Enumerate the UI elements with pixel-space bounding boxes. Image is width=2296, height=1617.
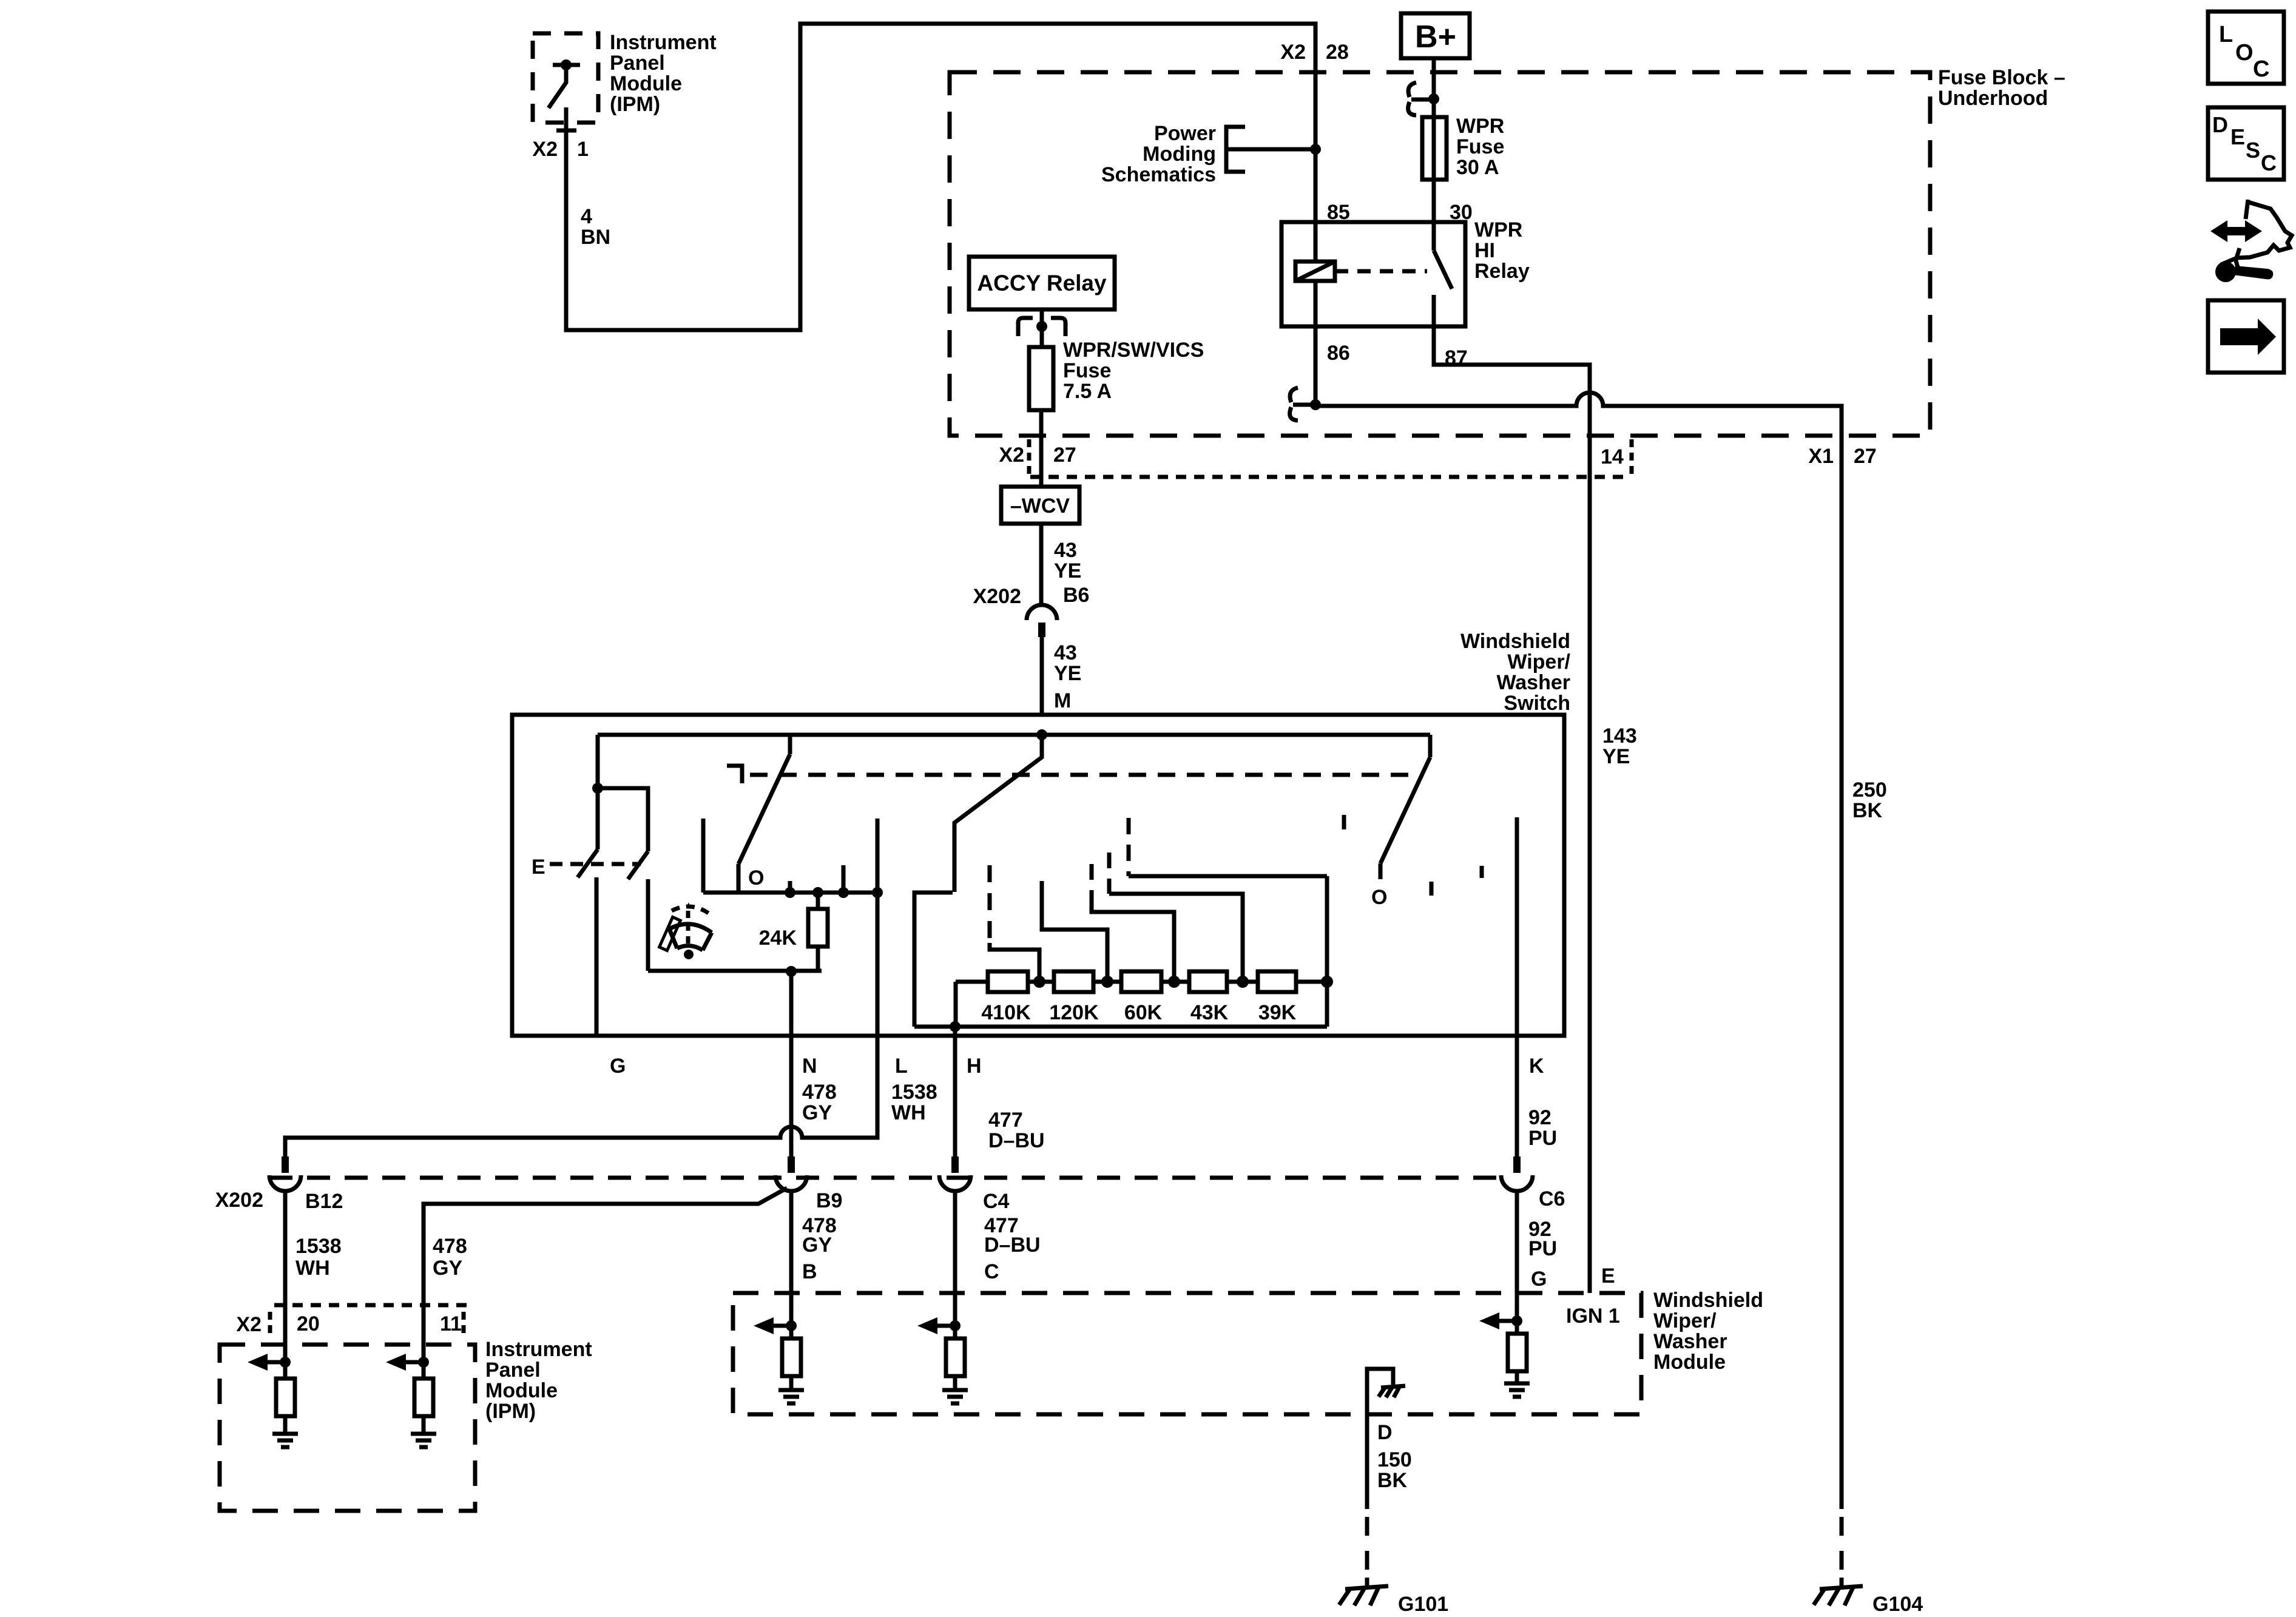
svg-text:Underhood: Underhood (1938, 87, 2048, 110)
svg-text:YE: YE (1602, 745, 1630, 768)
label Windshield Wiper/Washer Switch (1460, 630, 1571, 715)
wire B6 to switch pin M (1040, 637, 1044, 715)
relay WPR HI box (1281, 222, 1465, 326)
strip separator left of X2-27 (1027, 439, 1032, 479)
relay coil dashed link (1335, 269, 1427, 274)
wire label 43 YE M (1054, 641, 1081, 712)
svg-text:Panel: Panel (610, 52, 665, 75)
relay coil feed wire 85 (1314, 222, 1318, 262)
clip pair at ACCY feed (1018, 318, 1065, 336)
svg-text:Moding: Moding (1143, 143, 1216, 166)
icon box DESC (2208, 107, 2284, 180)
svg-text:Washer: Washer (1496, 671, 1570, 694)
svg-text:HI: HI (1474, 239, 1495, 262)
fuse WPR/SW/VICS 7.5 A (1029, 347, 1053, 410)
svg-text:G104: G104 (1872, 1593, 1923, 1616)
ladder series wire (956, 980, 1327, 984)
connector labels X202 B12 (215, 1189, 343, 1213)
connector pin C6 (1501, 1156, 1533, 1191)
svg-text:YE: YE (1054, 662, 1081, 685)
rail stub tall (842, 865, 846, 893)
H output wire inside box (953, 1027, 957, 1156)
junction at B+ feed (1428, 93, 1439, 104)
svg-text:D: D (1377, 1421, 1393, 1444)
windshield wiper/washer switch box (512, 715, 1564, 1036)
linkage dashed line (750, 773, 1418, 777)
fuse WPR 30 A (1422, 117, 1447, 180)
mist switch dashed link (550, 862, 641, 866)
svg-text:14: 14 (1601, 445, 1624, 468)
svg-text:1538: 1538 (295, 1235, 342, 1258)
label WPR Fuse 30 A (1456, 115, 1504, 179)
K contact wire (1515, 817, 1519, 1156)
clip symbol at B+ feed (1408, 83, 1434, 115)
svg-text:Power: Power (1154, 122, 1216, 145)
module box: Instrument Panel Module (IPM) upper-left (533, 33, 598, 123)
module input arrow pin C (917, 1317, 961, 1334)
svg-text:GY: GY (802, 1234, 832, 1257)
pin tick at IPM X2-1 (556, 129, 576, 133)
svg-text:X2: X2 (236, 1313, 262, 1336)
svg-text:478: 478 (802, 1081, 837, 1104)
svg-text:X2: X2 (532, 138, 558, 161)
svg-text:7.5 A: 7.5 A (1063, 380, 1112, 403)
G contact wire (595, 877, 599, 1036)
svg-text:X1: X1 (1808, 445, 1834, 468)
icon box LOC (2208, 12, 2284, 84)
off contact dash 3 (1480, 866, 1484, 878)
tap A dashed stub (988, 865, 992, 943)
connector pin B12 (269, 1156, 301, 1191)
fuse block underhood dashed box (950, 72, 1930, 436)
IPM input arrow pin 11 (386, 1354, 429, 1371)
svg-text:C: C (2261, 150, 2277, 175)
svg-text:GY: GY (802, 1101, 832, 1124)
svg-text:30 A: 30 A (1456, 156, 1499, 179)
N output wire inside box (789, 971, 794, 1036)
rail junction dots (785, 887, 883, 898)
clip symbol at relay 86 (1290, 388, 1315, 420)
wire label 92 PU (K) (1528, 1106, 1557, 1150)
module chassis ground pigtail D (1367, 1369, 1393, 1414)
svg-text:BK: BK (1852, 799, 1883, 822)
svg-text:B: B (802, 1260, 817, 1283)
svg-text:G: G (610, 1055, 626, 1078)
wire VICS fuse to WCV (1039, 410, 1044, 487)
ground symbol IPM pin 20 (272, 1434, 298, 1447)
svg-text:BN: BN (581, 226, 610, 249)
IPM load resistor pin 11 (414, 1362, 433, 1432)
wire label 143 YE (1602, 724, 1637, 768)
dashed wire to G104 (1840, 1517, 1844, 1576)
svg-text:85: 85 (1327, 201, 1350, 224)
wire label 478 GY (pin 11) (433, 1235, 467, 1280)
ladder right vertical (1325, 876, 1329, 1027)
switch inner top bus wire (598, 733, 1430, 737)
tap D solid (1109, 894, 1243, 982)
wire label 477 D-BU (H) (988, 1109, 1045, 1152)
svg-text:–WCV: –WCV (1010, 495, 1070, 518)
svg-text:1538: 1538 (891, 1081, 937, 1104)
module box: windshield wiper/washer module (733, 1293, 1641, 1414)
junction at ACCY feed (1036, 321, 1047, 332)
rail stub small (788, 881, 792, 893)
wire ACCY relay to VICS fuse (1040, 309, 1044, 347)
connector label X2 pin 27 (999, 444, 1076, 467)
dashed wire to G101 (1365, 1517, 1369, 1576)
ladder value labels (981, 1001, 1296, 1024)
connector label X1 pin 27 (1808, 445, 1876, 468)
svg-text:Schematics: Schematics (1101, 163, 1216, 186)
resistor 120K (1054, 971, 1093, 992)
connector label X2 pin 1 (532, 138, 589, 161)
B+ power feed box (1401, 13, 1470, 58)
module box: Instrument Panel Module (IPM) lower-left (220, 1345, 475, 1511)
svg-text:PU: PU (1528, 1127, 1557, 1150)
tap A solid (990, 943, 1039, 982)
wiper mode arm (738, 735, 790, 893)
svg-text:43: 43 (1054, 539, 1077, 562)
H pickup corner (914, 893, 953, 1027)
connector label X2 pin 28 (1280, 41, 1348, 64)
label Windshield Wiper/Washer Module (1653, 1289, 1763, 1374)
svg-text:PU: PU (1528, 1237, 1557, 1260)
svg-text:Fuse Block –: Fuse Block – (1938, 66, 2065, 89)
IPM load resistor pin 20 (276, 1362, 295, 1432)
svg-text:E: E (1601, 1264, 1615, 1288)
wire label 1538 WH (B12) (295, 1235, 342, 1280)
left contact rail upright (701, 819, 706, 893)
wire WPR fuse to relay 30 (1432, 117, 1436, 222)
svg-text:250: 250 (1852, 778, 1887, 802)
svg-text:BK: BK (1377, 1469, 1408, 1492)
inline connector X202 B6 (1027, 605, 1057, 637)
switch pin labels G N L H K (610, 1055, 1544, 1078)
connector pin C4 (939, 1156, 971, 1191)
relay coil (1295, 262, 1335, 281)
junction dot M (1036, 729, 1047, 740)
svg-text:Module: Module (1653, 1351, 1726, 1374)
svg-text:O: O (2235, 40, 2254, 66)
chassis ground G101 (1339, 1578, 1388, 1605)
tap C dashed stub (1090, 864, 1094, 897)
wire label 250 BK (1852, 778, 1887, 822)
svg-text:Instrument: Instrument (610, 31, 717, 54)
svg-text:43: 43 (1054, 641, 1077, 664)
svg-text:477: 477 (988, 1109, 1023, 1132)
svg-text:Wiper/: Wiper/ (1653, 1309, 1717, 1332)
wire label 477 D-BU (C4) (984, 1214, 1041, 1257)
svg-text:WPR/SW/VICS: WPR/SW/VICS (1063, 339, 1204, 362)
tap C solid (1092, 897, 1174, 982)
svg-text:WH: WH (295, 1257, 330, 1280)
svg-text:Module: Module (610, 72, 682, 95)
junction dot mist branch (592, 783, 603, 794)
svg-text:Washer: Washer (1653, 1330, 1727, 1353)
svg-text:Windshield: Windshield (1460, 630, 1570, 653)
ground symbol IPM pin 11 (411, 1434, 436, 1447)
svg-text:D–BU: D–BU (984, 1234, 1041, 1257)
IPM input arrow pin 20 (248, 1354, 291, 1371)
mist branch wire (598, 788, 648, 851)
chassis ground symbol at D pigtail (1379, 1386, 1405, 1397)
svg-text:Switch: Switch (1504, 692, 1570, 715)
svg-text:O: O (748, 866, 764, 890)
relay pin labels 85 30 (1327, 201, 1473, 224)
svg-text:X202: X202 (973, 585, 1021, 608)
svg-text:GY: GY (433, 1257, 462, 1280)
svg-text:27: 27 (1053, 444, 1076, 467)
svg-text:C: C (2253, 56, 2269, 82)
N wire to connector B9 (789, 1036, 794, 1156)
ACCY Relay box (969, 257, 1115, 309)
wire label 478 GY (N) (802, 1081, 837, 1124)
delay wiper arm from M (954, 735, 1042, 892)
mist switch right blade (628, 851, 648, 879)
svg-text:IGN 1: IGN 1 (1566, 1305, 1620, 1328)
svg-text:27: 27 (1854, 445, 1877, 468)
svg-text:150: 150 (1377, 1448, 1412, 1471)
svg-text:(IPM): (IPM) (610, 93, 660, 116)
svg-text:60K: 60K (1124, 1001, 1163, 1024)
svg-text:YE: YE (1054, 559, 1081, 582)
IPM strip separator right (462, 1312, 466, 1338)
svg-text:L: L (2219, 22, 2233, 47)
wire module D to G101 (1365, 1414, 1369, 1509)
resistor 43K (1189, 971, 1227, 992)
svg-text:Instrument: Instrument (485, 1338, 592, 1361)
svg-text:28: 28 (1326, 41, 1349, 64)
washer spray icon (660, 902, 712, 959)
svg-text:86: 86 (1327, 342, 1350, 365)
svg-text:M: M (1054, 689, 1071, 712)
off contact dash 1 (1342, 815, 1346, 829)
strip separator right of 14 (1630, 439, 1634, 479)
ground symbol module pin G (1504, 1383, 1530, 1397)
module input arrow pin G (1479, 1312, 1522, 1329)
svg-text:N: N (802, 1055, 817, 1078)
resistor 410K (988, 971, 1028, 992)
tap E horizontal (1129, 874, 1327, 879)
svg-text:Module: Module (485, 1379, 558, 1402)
icon hand with arrow and wrench (2210, 200, 2292, 282)
svg-text:143: 143 (1602, 724, 1637, 748)
wire from IPM pin 1 to fuse block X2-28 and relay 85 (566, 24, 1315, 330)
svg-text:Windshield: Windshield (1653, 1289, 1763, 1312)
svg-text:C4: C4 (983, 1190, 1010, 1213)
svg-text:D–BU: D–BU (988, 1129, 1045, 1152)
svg-text:92: 92 (1528, 1106, 1551, 1129)
wire B+ to WPR fuse (1432, 59, 1436, 117)
svg-text:WPR: WPR (1474, 218, 1522, 241)
module input arrow pin B (754, 1317, 797, 1334)
svg-text:B9: B9 (816, 1189, 842, 1212)
wire label D 150 BK (1377, 1421, 1412, 1492)
L output wire (876, 819, 880, 1036)
connector pin B9 (775, 1156, 807, 1191)
left bus drop wire (596, 735, 600, 849)
svg-text:H: H (967, 1055, 982, 1078)
wire B9 to module pin B (789, 1192, 794, 1326)
junction dot at power moding tap (1310, 144, 1321, 155)
svg-text:E: E (532, 856, 545, 879)
svg-text:1: 1 (577, 138, 589, 161)
junction at relay 86 (1310, 399, 1321, 410)
label Instrument Panel Module (IPM) (485, 1338, 592, 1423)
left contact rail (703, 891, 877, 895)
svg-text:L: L (895, 1055, 908, 1078)
svg-text:X2: X2 (1280, 41, 1306, 64)
WCV box (1001, 487, 1079, 524)
connector labels X202 B6 (973, 584, 1090, 608)
svg-text:24K: 24K (759, 927, 797, 950)
module load resistor pin B (782, 1326, 801, 1390)
svg-text:Relay: Relay (1474, 260, 1530, 283)
label WPR HI Relay (1474, 218, 1530, 283)
module load resistor pin C (946, 1326, 965, 1390)
X202 harness dashed line (269, 1176, 1496, 1180)
tap E dashed stub (1127, 818, 1131, 876)
wire relay 86 to fuse block X1-27 and G104 (1315, 281, 1842, 1509)
svg-text:120K: 120K (1049, 1001, 1099, 1024)
mist bottom link wire (648, 969, 822, 973)
svg-text:B12: B12 (305, 1190, 343, 1213)
wire B9 branch to IPM pin 11 (424, 1188, 787, 1362)
bracket from Power Moding Schematics (1226, 127, 1245, 172)
svg-text:Panel: Panel (485, 1359, 541, 1382)
junction dot N (786, 966, 797, 977)
svg-text:478: 478 (433, 1235, 467, 1258)
IPM pin strip dotted line (274, 1303, 467, 1308)
ground symbol module pin C (942, 1390, 968, 1403)
relay pin labels 86 87 (1327, 342, 1468, 370)
linkage corner mark (727, 766, 742, 783)
wire label 92 PU (C6) (1528, 1218, 1557, 1260)
24K resistor (808, 893, 828, 971)
svg-text:11: 11 (440, 1312, 462, 1335)
L wire jog to connector B12 (285, 1036, 877, 1156)
tap D dashed stub (1107, 852, 1112, 894)
svg-text:C: C (984, 1260, 999, 1283)
ladder bottom wire (914, 1025, 1327, 1029)
chassis ground G104 (1814, 1578, 1863, 1605)
wire relay 87 to fuse block pin 14 and module IGN1 (1434, 326, 1590, 1293)
label Power Moding Schematics (1101, 122, 1216, 186)
relay switch contact 30-87 (1434, 222, 1452, 326)
tap B solid (1042, 881, 1107, 982)
wire C4 to module pin C (953, 1192, 957, 1326)
wire C6 to module pin G (1515, 1192, 1519, 1321)
svg-text:Fuse: Fuse (1063, 359, 1111, 382)
svg-text:S: S (2246, 138, 2260, 163)
svg-text:(IPM): (IPM) (485, 1400, 536, 1423)
switch inside IPM (549, 59, 580, 108)
mist switch left blade (578, 849, 598, 877)
ground symbol module pin B (778, 1390, 804, 1403)
svg-text:Wiper/: Wiper/ (1507, 650, 1570, 673)
svg-text:WH: WH (891, 1101, 926, 1124)
svg-text:E: E (2230, 124, 2245, 149)
svg-text:20: 20 (297, 1312, 320, 1335)
resistor 60K (1121, 971, 1161, 992)
svg-text:D: D (2212, 112, 2228, 137)
svg-text:ACCY Relay: ACCY Relay (977, 271, 1107, 295)
svg-text:X202: X202 (215, 1189, 263, 1212)
wire label 1538 WH (L) (891, 1081, 937, 1124)
svg-text:WPR: WPR (1456, 115, 1504, 138)
svg-text:O: O (1371, 886, 1387, 909)
wire label 478 GY (B9) (802, 1214, 837, 1257)
IPM strip separator left (268, 1312, 272, 1338)
wire B12 to IPM pin 20 (283, 1192, 288, 1362)
svg-text:39K: 39K (1258, 1001, 1297, 1024)
wire bracket to relay feed (1226, 147, 1315, 152)
svg-text:C6: C6 (1539, 1187, 1565, 1210)
svg-text:4: 4 (581, 205, 592, 228)
wire label 4 BN (581, 205, 610, 249)
wire WCV to X202-B6 (1039, 524, 1044, 606)
label Fuse Block - Underhood (1938, 66, 2065, 110)
resistor 39K (1258, 971, 1296, 992)
svg-text:G: G (1531, 1268, 1547, 1291)
module load resistor pin G (1508, 1321, 1527, 1383)
svg-text:410K: 410K (981, 1001, 1031, 1024)
ladder junction dots (1033, 976, 1333, 988)
off contact dash 2 (1430, 882, 1434, 896)
fuse block bottom strip dotted line (1030, 475, 1630, 479)
svg-text:G101: G101 (1398, 1593, 1448, 1616)
svg-text:K: K (1529, 1055, 1544, 1078)
svg-text:B6: B6 (1063, 584, 1089, 607)
label WPR/SW/VICS Fuse 7.5 A (1063, 339, 1204, 403)
svg-text:30: 30 (1450, 201, 1473, 224)
svg-text:B+: B+ (1415, 19, 1456, 55)
ladder left end link (954, 982, 958, 1027)
icon box arrow (2208, 300, 2284, 373)
svg-text:43K: 43K (1190, 1001, 1229, 1024)
wire label 43 YE (upper) (1054, 539, 1081, 582)
mist lower contact wire (646, 879, 650, 971)
svg-text:X2: X2 (999, 444, 1024, 467)
off switch arm (1380, 735, 1430, 879)
svg-text:Fuse: Fuse (1456, 135, 1504, 158)
junction dot H (950, 1021, 961, 1032)
